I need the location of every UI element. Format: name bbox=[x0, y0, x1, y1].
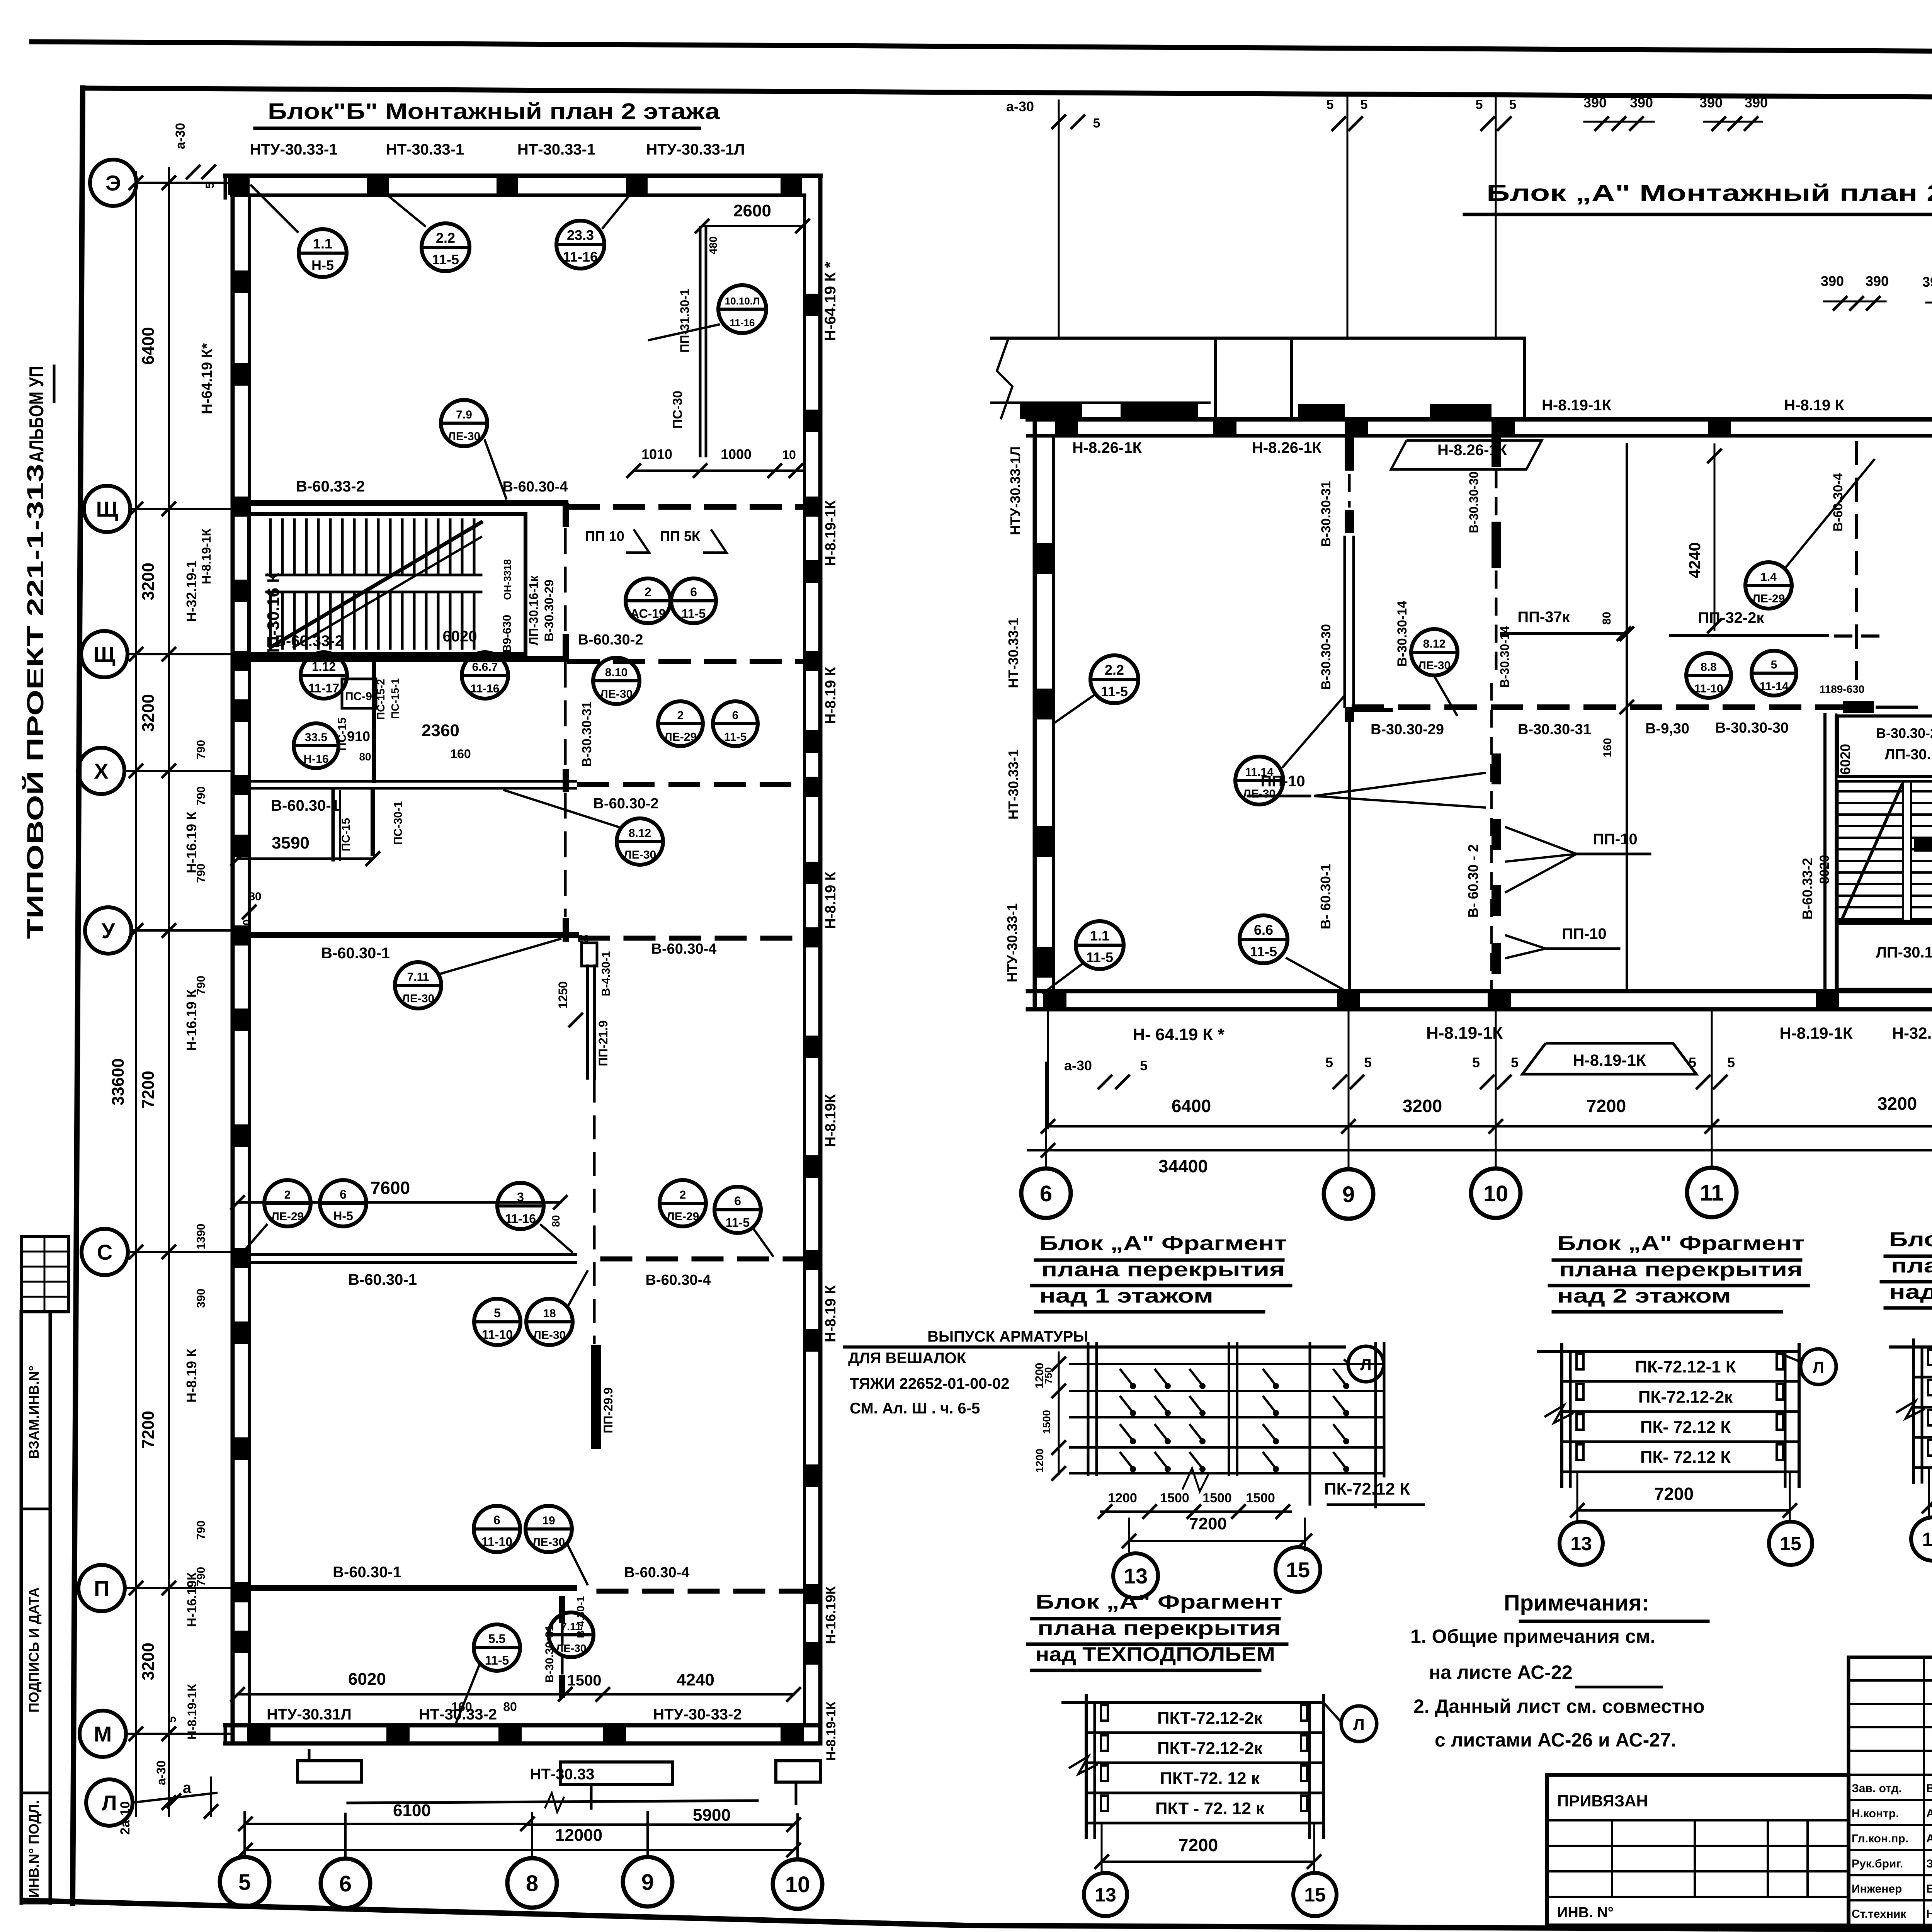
svg-text:ПП-31.30-1: ПП-31.30-1 bbox=[678, 289, 692, 352]
svg-text:80: 80 bbox=[241, 919, 253, 931]
svg-text:на листе АС-22: на листе АС-22 bbox=[1429, 1662, 1573, 1683]
svg-text:80: 80 bbox=[248, 890, 261, 903]
block B riser В-430-1 bbox=[556, 933, 612, 1026]
svg-text:Блок „А" Фрагмент: Блок „А" Фрагмент bbox=[1036, 1591, 1283, 1613]
svg-text:8: 8 bbox=[526, 1871, 538, 1896]
svg-text:80: 80 bbox=[359, 751, 371, 763]
svg-text:1.1: 1.1 bbox=[1090, 928, 1109, 944]
fragment 1 bubbles bbox=[1113, 1553, 1158, 1598]
svg-text:Н-16: Н-16 bbox=[303, 753, 328, 765]
block B right wall bbox=[804, 176, 821, 1743]
svg-text:6020: 6020 bbox=[1837, 744, 1853, 775]
svg-text:10.10.Л: 10.10.Л bbox=[725, 295, 760, 307]
svg-text:Л: Л bbox=[1813, 1358, 1824, 1376]
svg-text:ПК- 72.12 К: ПК- 72.12 К bbox=[1640, 1418, 1731, 1437]
svg-text:Н-8.19-1К: Н-8.19-1К bbox=[1573, 1051, 1646, 1069]
signature table bbox=[1849, 1657, 1932, 1925]
svg-text:плана перекрытия: плана перекрытия bbox=[1559, 1259, 1803, 1281]
svg-text:В-30.30-31: В-30.30-31 bbox=[1319, 481, 1333, 547]
svg-text:1390: 1390 bbox=[195, 1224, 207, 1250]
svg-text:11-10: 11-10 bbox=[1694, 682, 1723, 695]
svg-text:6.6.7: 6.6.7 bbox=[472, 661, 498, 673]
svg-text:В-9,30: В-9,30 bbox=[1645, 721, 1689, 737]
svg-text:3200: 3200 bbox=[1403, 1096, 1442, 1116]
svg-text:9: 9 bbox=[641, 1870, 654, 1895]
block A callout 1.4 bbox=[1745, 562, 1792, 609]
svg-text:11-16: 11-16 bbox=[470, 682, 499, 695]
svg-text:Н-8.19 К: Н-8.19 К bbox=[823, 871, 839, 929]
svg-text:В9-630: В9-630 bbox=[501, 615, 514, 653]
block B callout 8.10 bbox=[593, 658, 639, 704]
svg-text:5: 5 bbox=[1689, 1054, 1696, 1070]
svg-text:Примечания:: Примечания: bbox=[1504, 1590, 1649, 1616]
svg-text:6: 6 bbox=[493, 1513, 500, 1527]
svg-text:Х: Х bbox=[94, 759, 108, 783]
fragment 1 drawing bbox=[1070, 1344, 1384, 1507]
block B bottom dims bbox=[118, 1760, 800, 1856]
svg-text:6100: 6100 bbox=[393, 1801, 431, 1820]
svg-text:а-30: а-30 bbox=[154, 1760, 168, 1785]
block B vertical ПП-21.9 upper bbox=[587, 966, 610, 1078]
fragment 2 leader circle Л bbox=[1801, 1349, 1836, 1384]
svg-text:11-5: 11-5 bbox=[682, 607, 706, 621]
grid bubble П bbox=[78, 1565, 125, 1611]
svg-text:4240: 4240 bbox=[677, 1670, 714, 1689]
svg-text:2.2: 2.2 bbox=[436, 230, 455, 246]
block B partition ПС-15 lower bbox=[333, 790, 405, 860]
svg-text:В-30.30-30: В-30.30-30 bbox=[1715, 720, 1789, 736]
svg-text:5: 5 bbox=[1325, 1054, 1333, 1070]
svg-text:5: 5 bbox=[1476, 97, 1483, 112]
svg-text:80: 80 bbox=[1600, 612, 1613, 624]
grid bubble Э bbox=[90, 160, 136, 206]
svg-text:ЛЕ-29: ЛЕ-29 bbox=[271, 1210, 304, 1223]
svg-text:33600: 33600 bbox=[109, 1058, 128, 1105]
svg-text:1500: 1500 bbox=[567, 1672, 602, 1689]
svg-text:11-5: 11-5 bbox=[1101, 684, 1128, 699]
svg-text:Н-32.19-1: Н-32.19-1 bbox=[1892, 1024, 1932, 1042]
svg-text:5: 5 bbox=[494, 1306, 501, 1320]
svg-text:ПС-9: ПС-9 bbox=[345, 690, 372, 703]
svg-text:Н-32.19-1: Н-32.19-1 bbox=[184, 560, 199, 622]
svg-text:ПП-29.9: ПП-29.9 bbox=[601, 1388, 615, 1434]
block B callout 5/11-10 bbox=[474, 1299, 520, 1345]
svg-text:7200: 7200 bbox=[1179, 1835, 1218, 1855]
svg-text:М: М bbox=[94, 1722, 112, 1746]
svg-text:ПС-30: ПС-30 bbox=[670, 391, 685, 429]
svg-text:Блок „А" Фрагмент: Блок „А" Фрагмент bbox=[1557, 1232, 1804, 1255]
svg-text:С: С bbox=[97, 1240, 112, 1264]
svg-text:ЛП-30.16к: ЛП-30.16к bbox=[1876, 944, 1932, 961]
grid bubble Щ2 bbox=[81, 631, 128, 677]
svg-text:3: 3 bbox=[517, 1190, 524, 1204]
svg-text:Н-8.19 К: Н-8.19 К bbox=[823, 1285, 839, 1342]
svg-text:18: 18 bbox=[543, 1307, 556, 1320]
block B callout 6.6.7 bbox=[462, 652, 508, 699]
svg-text:Н-8.19 К: Н-8.19 К bbox=[184, 1348, 199, 1403]
svg-text:Щ: Щ bbox=[93, 642, 115, 667]
svg-text:В-60.30-2: В-60.30-2 bbox=[578, 632, 643, 648]
svg-text:над ТЕХПОДПОЛЬЕМ: над ТЕХПОДПОЛЬЕМ bbox=[1036, 1643, 1275, 1666]
svg-text:Н-5: Н-5 bbox=[333, 1209, 353, 1223]
left margin stamp column boxes bbox=[21, 1312, 50, 1903]
block B top wall bbox=[225, 176, 820, 198]
svg-text:1010: 1010 bbox=[641, 446, 672, 462]
svg-text:НТ-30.33-1: НТ-30.33-1 bbox=[517, 141, 595, 158]
svg-text:1.4: 1.4 bbox=[1760, 571, 1777, 583]
svg-text:НТУ-30.31Л: НТУ-30.31Л bbox=[267, 1706, 352, 1723]
svg-text:ПП-10: ПП-10 bbox=[1562, 925, 1606, 942]
svg-text:плана перекрытия: плана перекрытия bbox=[1037, 1617, 1281, 1639]
block B callout 6/11-10 П bbox=[474, 1506, 520, 1552]
block B callout 7.9 bbox=[441, 400, 487, 446]
svg-text:а-30: а-30 bbox=[1064, 1058, 1092, 1073]
block A callout 11.14 bbox=[1235, 757, 1283, 804]
block B vertical ПП-29.9 bbox=[591, 1080, 615, 1449]
svg-text:В-60.30-4: В-60.30-4 bbox=[503, 479, 568, 495]
svg-text:5: 5 bbox=[1364, 1054, 1372, 1070]
svg-text:10: 10 bbox=[1483, 1181, 1509, 1206]
block A Щ dashed wall bbox=[1354, 681, 1932, 738]
svg-text:с листами АС-26 и АС-27.: с листами АС-26 и АС-27. bbox=[1435, 1729, 1676, 1751]
svg-text:390: 390 bbox=[1583, 95, 1607, 111]
svg-text:СМ. Ал. Ш . ч. 6-5: СМ. Ал. Ш . ч. 6-5 bbox=[850, 1400, 980, 1417]
svg-text:5900: 5900 bbox=[693, 1806, 731, 1825]
svg-text:160: 160 bbox=[450, 747, 471, 761]
block A stair bbox=[1825, 692, 1932, 991]
svg-text:Е.Афанасьева: Е.Афанасьева bbox=[1926, 1883, 1932, 1895]
svg-text:а-30: а-30 bbox=[173, 123, 188, 149]
svg-text:5: 5 bbox=[1140, 1058, 1148, 1073]
svg-text:80: 80 bbox=[503, 1700, 517, 1714]
svg-text:2.2: 2.2 bbox=[1105, 662, 1124, 678]
svg-text:ЛЕ-29: ЛЕ-29 bbox=[667, 1210, 699, 1223]
svg-text:ПС-30-1: ПС-30-1 bbox=[392, 801, 405, 845]
svg-text:ДЛЯ ВЕШАЛОК: ДЛЯ ВЕШАЛОК bbox=[848, 1350, 966, 1367]
svg-text:В-60.30-2: В-60.30-2 bbox=[594, 796, 659, 812]
svg-text:Н-16.19К: Н-16.19К bbox=[185, 1572, 199, 1627]
svg-text:6: 6 bbox=[732, 709, 739, 722]
svg-text:6: 6 bbox=[340, 1187, 347, 1201]
block B stairwell bbox=[249, 514, 526, 660]
svg-text:11-5: 11-5 bbox=[485, 1653, 509, 1667]
block A callout 8.12 bbox=[1411, 629, 1458, 675]
svg-text:5: 5 bbox=[1327, 97, 1334, 112]
block B callout 23.3 top bbox=[556, 221, 604, 269]
svg-text:ПП-10: ПП-10 bbox=[1593, 831, 1637, 848]
svg-text:6400: 6400 bbox=[1172, 1096, 1211, 1116]
svg-text:Н.контр.: Н.контр. bbox=[1852, 1807, 1899, 1820]
svg-text:В-60.30-1: В-60.30-1 bbox=[333, 1564, 401, 1581]
svg-text:Н-8.19-1К: Н-8.19-1К bbox=[1542, 397, 1612, 414]
svg-text:6: 6 bbox=[339, 1871, 352, 1896]
svg-text:3200: 3200 bbox=[139, 694, 158, 732]
svg-text:Блок"Б" Монтажный план 2 эт: Блок"Б" Монтажный план 2 этажа bbox=[268, 99, 720, 124]
svg-text:23.3: 23.3 bbox=[567, 227, 594, 243]
svg-text:Н-64.19 К*: Н-64.19 К* bbox=[199, 343, 215, 414]
svg-text:В-60.30-1: В-60.30-1 bbox=[348, 1271, 417, 1288]
block A callout 2.2 bbox=[1090, 655, 1138, 703]
svg-text:790: 790 bbox=[195, 740, 207, 759]
block B wall row П bbox=[238, 1564, 804, 1591]
signature table labels bbox=[1852, 1777, 1932, 1920]
svg-text:910: 910 bbox=[347, 728, 370, 744]
svg-text:5: 5 bbox=[1727, 1054, 1735, 1070]
svg-text:13: 13 bbox=[1570, 1533, 1592, 1554]
block B callout 2/ЛЕ-29 row С right bbox=[660, 1180, 706, 1226]
grid bubble С bbox=[82, 1229, 128, 1275]
block B bottom bubbles bbox=[220, 1857, 269, 1906]
svg-text:над 2 этажом: над 2 этажом bbox=[1557, 1285, 1731, 1307]
svg-text:3200: 3200 bbox=[1878, 1094, 1917, 1114]
svg-text:1. Общие примечания см.: 1. Общие примечания см. bbox=[1410, 1626, 1656, 1647]
svg-text:НТ-30.33-1: НТ-30.33-1 bbox=[1005, 618, 1021, 688]
block B dim 7600 room bbox=[231, 1178, 567, 1227]
svg-text:В-30.30-14: В-30.30-14 bbox=[1395, 601, 1410, 667]
svg-text:НТ-30.33-2: НТ-30.33-2 bbox=[419, 1706, 497, 1723]
svg-text:34400: 34400 bbox=[1158, 1156, 1208, 1176]
block A ПП-10 callouts left bbox=[1248, 773, 1650, 958]
sheet bottom border bbox=[21, 1900, 1932, 1930]
svg-text:10: 10 bbox=[782, 448, 796, 462]
block A outbuilding outline bbox=[992, 338, 1524, 419]
svg-text:6: 6 bbox=[1040, 1181, 1052, 1206]
svg-text:Н-8.26-1К: Н-8.26-1К bbox=[1252, 439, 1322, 456]
block A dimension line 1 bbox=[1042, 1094, 1932, 1133]
svg-text:1250: 1250 bbox=[556, 981, 570, 1009]
svg-text:2360: 2360 bbox=[422, 721, 459, 740]
svg-text:13: 13 bbox=[1922, 1529, 1932, 1550]
svg-text:5.5: 5.5 bbox=[488, 1632, 505, 1646]
svg-text:Н.Попова: Н.Попова bbox=[1926, 1908, 1932, 1920]
svg-text:11: 11 bbox=[1700, 1180, 1723, 1206]
svg-text:ПП 5К: ПП 5К bbox=[660, 528, 701, 544]
svg-text:ПКТ - 72. 12 к: ПКТ - 72. 12 к bbox=[1155, 1799, 1265, 1818]
block A callout 6.6 bbox=[1240, 915, 1287, 963]
block A dimension line 2 34400 bbox=[1028, 1144, 1932, 1176]
svg-text:3200: 3200 bbox=[139, 563, 158, 600]
svg-text:НТУ-30.33-1Л: НТУ-30.33-1Л bbox=[1007, 446, 1023, 535]
block A col9 stub wall bbox=[1354, 708, 1391, 712]
block A flag label H-8.19-1k left bbox=[1522, 1043, 1696, 1074]
block B dims above row М bbox=[231, 1670, 800, 1714]
svg-text:АС-19: АС-19 bbox=[630, 607, 666, 621]
block B callout 10.10 top bbox=[718, 285, 766, 333]
left margin mini table bbox=[21, 1236, 69, 1312]
svg-text:В-60.33-2: В-60.33-2 bbox=[275, 633, 344, 650]
svg-text:В-60.30-4: В-60.30-4 bbox=[651, 941, 717, 957]
svg-text:Н-8.19К: Н-8.19К bbox=[823, 1094, 839, 1147]
block B bottom wall row M bbox=[225, 1725, 820, 1743]
svg-text:НТУ-30.33-1: НТУ-30.33-1 bbox=[250, 141, 337, 158]
block A top dim ticks lower band bbox=[1821, 273, 1932, 419]
svg-text:7200: 7200 bbox=[1654, 1484, 1694, 1504]
svg-text:ЛЕ-30: ЛЕ-30 bbox=[1243, 787, 1276, 800]
svg-text:Рук.бриг.: Рук.бриг. bbox=[1852, 1857, 1903, 1870]
grid bubble Щ1 bbox=[84, 486, 130, 532]
svg-text:ПКТ-72.12-2к: ПКТ-72.12-2к bbox=[1157, 1739, 1263, 1758]
block A callout 1.1 bbox=[1076, 921, 1124, 969]
block A col11 interior line bbox=[1600, 444, 1721, 991]
svg-text:5: 5 bbox=[1472, 1054, 1480, 1070]
svg-text:ЛЕ-30: ЛЕ-30 bbox=[402, 992, 434, 1005]
svg-text:Н-8.19 К: Н-8.19 К bbox=[1784, 397, 1844, 414]
svg-text:ЛЕ-30: ЛЕ-30 bbox=[1418, 659, 1451, 672]
svg-text:6020: 6020 bbox=[443, 628, 477, 645]
svg-text:13: 13 bbox=[1095, 1884, 1116, 1906]
block A top wall bbox=[1028, 419, 1932, 436]
block B wall row Щ2 bbox=[249, 632, 804, 662]
svg-text:8020: 8020 bbox=[1817, 855, 1832, 884]
svg-text:ПП-37к: ПП-37к bbox=[1517, 609, 1570, 626]
block B callout 19/ЛЕ-30 П bbox=[526, 1506, 572, 1552]
svg-text:2: 2 bbox=[680, 1189, 686, 1201]
fragment 3 drawing bbox=[1890, 1345, 1932, 1349]
block A column bubbles bbox=[1021, 1168, 1071, 1218]
svg-text:7200: 7200 bbox=[1189, 1514, 1227, 1533]
svg-text:11-16: 11-16 bbox=[505, 1212, 536, 1226]
block B callout 2.2 top bbox=[422, 223, 469, 271]
block A wall col10 bbox=[1492, 436, 1501, 991]
svg-text:ЛЕ-30: ЛЕ-30 bbox=[532, 1536, 565, 1549]
svg-text:80: 80 bbox=[550, 1215, 562, 1227]
svg-text:11-17: 11-17 bbox=[308, 681, 339, 695]
block B center partition В-30.30-31 bbox=[563, 503, 594, 942]
svg-text:2: 2 bbox=[284, 1189, 291, 1201]
svg-text:а: а bbox=[183, 1779, 192, 1796]
sheet left border bbox=[73, 88, 83, 1903]
privyazan box bbox=[1547, 1775, 1849, 1925]
grid bubble У bbox=[85, 907, 131, 954]
svg-text:Э: Э bbox=[105, 171, 121, 195]
svg-text:В-60.33-2: В-60.33-2 bbox=[296, 478, 365, 495]
svg-text:5: 5 bbox=[166, 1716, 179, 1723]
svg-text:7.11: 7.11 bbox=[561, 1621, 582, 1633]
svg-text:11-14: 11-14 bbox=[1759, 680, 1788, 693]
block B callout 18/ЛЕ-30 bbox=[526, 1299, 573, 1345]
svg-text:Н-5: Н-5 bbox=[311, 257, 334, 273]
block B porch structures bbox=[298, 1750, 820, 1808]
block B callout 3/11-16 row С bbox=[497, 1183, 544, 1229]
svg-text:4240: 4240 bbox=[1685, 542, 1704, 578]
svg-text:ЛЕ-29: ЛЕ-29 bbox=[1752, 592, 1785, 605]
svg-text:Блок „А" Фрагмент: Блок „А" Фрагмент bbox=[1039, 1232, 1287, 1255]
svg-text:Н-16.19К: Н-16.19К bbox=[823, 1586, 838, 1644]
svg-text:33.5: 33.5 bbox=[305, 731, 327, 744]
fragment 2 drawing bbox=[1539, 1350, 1799, 1353]
block B callout 7.11 row У bbox=[395, 962, 441, 1009]
svg-text:390: 390 bbox=[195, 1289, 207, 1308]
block A wall col9 bbox=[1345, 436, 1354, 991]
svg-text:8.10: 8.10 bbox=[605, 666, 628, 679]
svg-text:1500: 1500 bbox=[1041, 1410, 1053, 1434]
svg-text:ПК- 72.12 К: ПК- 72.12 К bbox=[1640, 1448, 1731, 1467]
block B callout 2/ЛЕ-29 row X bbox=[658, 701, 703, 746]
block B callout 1.1 top bbox=[299, 229, 347, 277]
block A bottom wall bbox=[1028, 991, 1932, 1009]
block B left dimension chain line bbox=[130, 168, 175, 1816]
svg-text:Ст.техник: Ст.техник bbox=[1852, 1908, 1906, 1920]
svg-text:6400: 6400 bbox=[139, 327, 158, 365]
svg-text:5: 5 bbox=[1771, 658, 1777, 671]
svg-text:ПС-15: ПС-15 bbox=[340, 818, 352, 852]
block B wall row Х bbox=[238, 781, 804, 814]
block B callout 33.5 bbox=[294, 723, 338, 768]
svg-text:2а-10: 2а-10 bbox=[118, 1801, 133, 1835]
svg-text:1200: 1200 bbox=[1034, 1449, 1046, 1473]
svg-text:ЛП-30.16к: ЛП-30.16к bbox=[1885, 747, 1932, 763]
svg-text:Н-8.19-1К: Н-8.19-1К bbox=[824, 1701, 838, 1760]
svg-text:390: 390 bbox=[1745, 95, 1768, 111]
svg-text:1500: 1500 bbox=[1246, 1491, 1275, 1505]
svg-text:ВЗАМ.ИНВ.N°: ВЗАМ.ИНВ.N° bbox=[26, 1366, 42, 1459]
svg-text:390: 390 bbox=[1630, 95, 1653, 111]
svg-text:390: 390 bbox=[1699, 95, 1723, 111]
svg-text:8.12: 8.12 bbox=[1423, 638, 1446, 650]
svg-text:8.8: 8.8 bbox=[1701, 661, 1717, 673]
svg-text:Зав. отд.: Зав. отд. bbox=[1852, 1782, 1902, 1795]
svg-text:Н-8.19-1К: Н-8.19-1К bbox=[199, 529, 213, 585]
svg-text:1500: 1500 bbox=[1160, 1491, 1189, 1505]
svg-text:А.Ивановский: А.Ивановский bbox=[1926, 1807, 1932, 1820]
svg-text:НТУ-30.33-1: НТУ-30.33-1 bbox=[1004, 903, 1020, 982]
grid bubble Л bbox=[86, 1779, 133, 1826]
svg-text:11-5: 11-5 bbox=[432, 252, 459, 267]
sheet top outer border line bbox=[32, 42, 1932, 55]
svg-text:ИНВ.N° ПОДЛ.: ИНВ.N° ПОДЛ. bbox=[26, 1800, 42, 1898]
fragment 4 drawing bbox=[1063, 1701, 1323, 1704]
block B callout 5.5 bbox=[474, 1624, 520, 1671]
svg-text:Н-8.19 К: Н-8.19 К bbox=[823, 667, 839, 724]
svg-text:2600: 2600 bbox=[733, 201, 771, 220]
svg-text:ПРИВЯЗАН: ПРИВЯЗАН bbox=[1557, 1792, 1648, 1810]
block B callout 2/АС-19 bbox=[626, 578, 670, 623]
svg-text:Н-8.19-1К: Н-8.19-1К bbox=[1779, 1024, 1852, 1042]
svg-text:НТУ-30-33-2: НТУ-30-33-2 bbox=[653, 1706, 742, 1723]
svg-text:ЛЕ-30: ЛЕ-30 bbox=[448, 430, 480, 443]
svg-text:ИНВ. N°: ИНВ. N° bbox=[1557, 1905, 1614, 1921]
svg-text:Н-8.19-1К: Н-8.19-1К bbox=[823, 500, 839, 566]
block A top dim ticks upper band bbox=[1006, 95, 1768, 338]
svg-text:390: 390 bbox=[1821, 273, 1844, 289]
svg-text:1.1: 1.1 bbox=[313, 236, 332, 252]
svg-text:В-4.30-1: В-4.30-1 bbox=[600, 951, 612, 997]
svg-text:НТ-30.33: НТ-30.33 bbox=[530, 1766, 595, 1783]
svg-text:7600: 7600 bbox=[371, 1178, 410, 1198]
svg-text:В- 60.30-1: В- 60.30-1 bbox=[1318, 864, 1333, 929]
block A wall В-60.30-4 dashed vertical bbox=[1831, 442, 1857, 678]
block A ПП-37к ПП-32-2к bbox=[1502, 609, 1882, 640]
svg-text:Н-16.19 К: Н-16.19 К bbox=[184, 989, 199, 1051]
grid bubble Х bbox=[78, 748, 124, 794]
svg-text:ВЫПУСК АРМАТУРЫ: ВЫПУСК АРМАТУРЫ bbox=[927, 1328, 1088, 1345]
svg-text:Л: Л bbox=[102, 1791, 117, 1815]
sheet top inner border line bbox=[83, 88, 1932, 100]
svg-text:3590: 3590 bbox=[272, 833, 310, 852]
svg-text:У: У bbox=[102, 918, 116, 943]
svg-text:15: 15 bbox=[1286, 1558, 1310, 1582]
svg-text:В-60.30-4: В-60.30-4 bbox=[646, 1272, 711, 1288]
svg-text:АЛЬБОМ УП: АЛЬБОМ УП bbox=[26, 366, 48, 463]
svg-text:1500: 1500 bbox=[1202, 1491, 1232, 1505]
svg-text:11-5: 11-5 bbox=[1250, 944, 1277, 959]
svg-text:390: 390 bbox=[1866, 273, 1889, 289]
svg-text:НТУ-30.33-1Л: НТУ-30.33-1Л bbox=[646, 141, 745, 158]
svg-text:Гл.кон.пр.: Гл.кон.пр. bbox=[1852, 1832, 1908, 1845]
block A below-wall tick rows bbox=[1048, 1012, 1932, 1128]
svg-text:11-16: 11-16 bbox=[730, 317, 755, 328]
svg-text:15: 15 bbox=[1304, 1884, 1326, 1906]
